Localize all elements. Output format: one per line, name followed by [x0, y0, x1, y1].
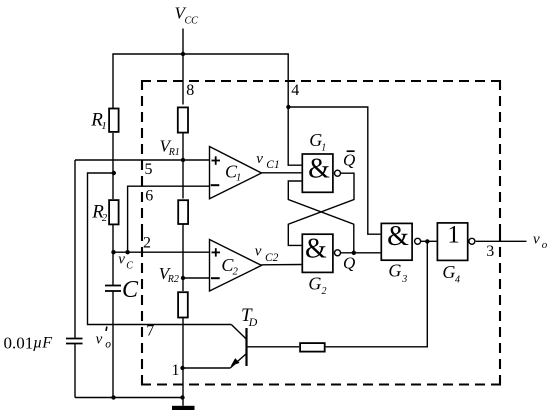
svg-text:0.01: 0.01: [4, 333, 34, 352]
svg-text:2: 2: [102, 213, 108, 224]
svg-text:&: &: [387, 221, 409, 252]
svg-text:v: v: [256, 151, 263, 167]
svg-text:1: 1: [447, 222, 460, 249]
svg-text:3: 3: [401, 274, 407, 285]
svg-text:v: v: [533, 232, 540, 248]
svg-text:o: o: [105, 339, 111, 351]
svg-text:2: 2: [143, 235, 151, 252]
svg-text:Q: Q: [343, 254, 355, 273]
svg-text:1: 1: [172, 362, 180, 379]
svg-text:8: 8: [186, 82, 194, 99]
svg-text:G: G: [388, 261, 401, 281]
svg-text:C1: C1: [266, 159, 279, 171]
svg-text:7: 7: [146, 323, 154, 340]
svg-text:C: C: [126, 261, 133, 272]
svg-text:R1: R1: [168, 147, 180, 158]
svg-text:2: 2: [233, 267, 239, 278]
svg-text:3: 3: [486, 243, 494, 260]
svg-text:&: &: [305, 234, 327, 265]
svg-text:R2: R2: [167, 274, 179, 285]
svg-text:D: D: [248, 315, 258, 329]
svg-text:5: 5: [145, 161, 153, 178]
svg-text:v: v: [96, 331, 103, 347]
svg-text:C2: C2: [265, 252, 279, 264]
svg-text:CC: CC: [185, 16, 199, 27]
svg-text:4: 4: [455, 274, 460, 285]
svg-text:v: v: [118, 252, 125, 268]
svg-text:2: 2: [322, 286, 327, 297]
svg-text:1: 1: [321, 142, 326, 153]
svg-text:G: G: [442, 262, 455, 282]
svg-text:o: o: [542, 239, 548, 251]
svg-text:C: C: [122, 277, 139, 303]
svg-text:&: &: [308, 154, 330, 185]
svg-text:1: 1: [236, 173, 241, 184]
svg-text:v: v: [255, 244, 262, 260]
svg-text:4: 4: [291, 82, 299, 99]
svg-text:1: 1: [101, 120, 107, 132]
svg-text:G: G: [308, 274, 321, 294]
svg-text:Q: Q: [343, 150, 355, 169]
svg-text:6: 6: [145, 188, 153, 205]
svg-text:µF: µF: [33, 334, 52, 351]
